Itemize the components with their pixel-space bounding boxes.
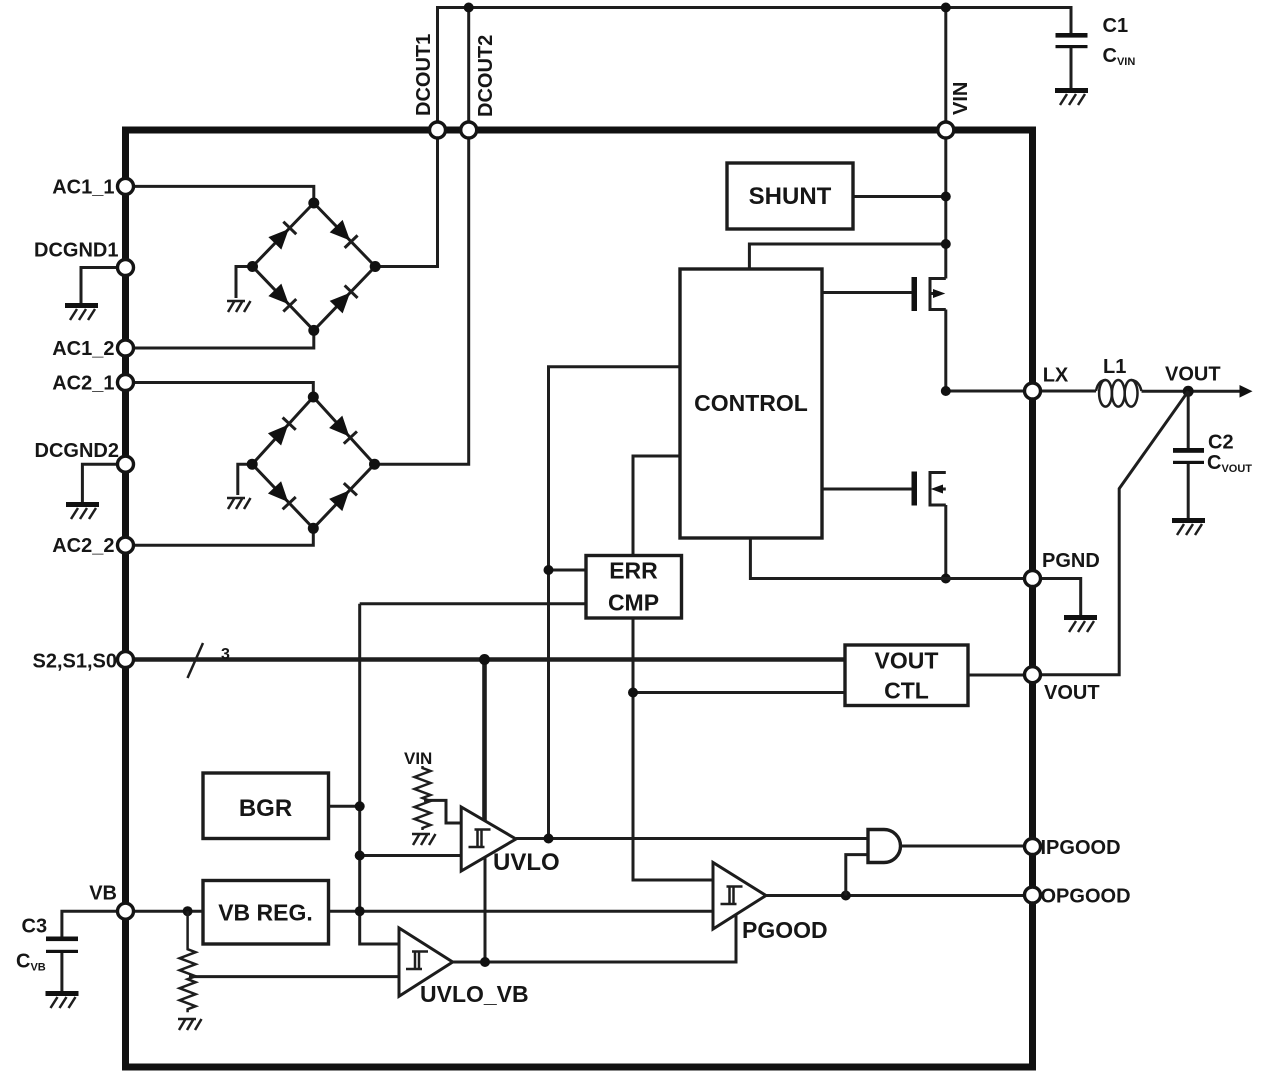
svg-text:VB: VB	[89, 883, 117, 905]
svg-text:C1: C1	[1103, 15, 1129, 37]
svg-text:AC1_1: AC1_1	[52, 177, 114, 199]
svg-text:AC2_2: AC2_2	[52, 535, 114, 557]
svg-text:DCOUT2: DCOUT2	[475, 35, 497, 117]
svg-text:DCGND1: DCGND1	[34, 240, 118, 262]
svg-text:PGOOD: PGOOD	[742, 917, 828, 943]
svg-text:ERR: ERR	[609, 558, 658, 584]
svg-text:PGND: PGND	[1042, 550, 1100, 572]
svg-text:BGR: BGR	[239, 795, 292, 822]
svg-text:C2: C2	[1208, 432, 1234, 454]
svg-text:DCOUT1: DCOUT1	[413, 34, 435, 116]
svg-text:S2,S1,S0: S2,S1,S0	[32, 651, 117, 673]
svg-text:VOUT: VOUT	[1165, 364, 1221, 386]
svg-text:VOUT: VOUT	[875, 648, 939, 674]
svg-text:CONTROL: CONTROL	[694, 390, 808, 416]
svg-text:3: 3	[221, 646, 230, 663]
svg-text:AC1_2: AC1_2	[52, 338, 114, 360]
svg-text:VOUT: VOUT	[1044, 682, 1100, 704]
svg-text:CTL: CTL	[884, 678, 929, 704]
svg-text:VIN: VIN	[950, 82, 972, 115]
svg-text:UVLO_VB: UVLO_VB	[420, 981, 529, 1007]
svg-text:CMP: CMP	[608, 590, 659, 616]
svg-text:VB REG.: VB REG.	[218, 900, 313, 926]
svg-text:UVLO: UVLO	[493, 849, 560, 876]
svg-text:VIN: VIN	[404, 749, 432, 768]
svg-text:OPGOOD: OPGOOD	[1041, 886, 1131, 908]
svg-text:DCGND2: DCGND2	[35, 440, 119, 462]
svg-text:LX: LX	[1043, 365, 1069, 387]
svg-text:AC2_1: AC2_1	[52, 373, 114, 395]
svg-text:L1: L1	[1103, 356, 1126, 378]
svg-text:IPGOOD: IPGOOD	[1041, 837, 1121, 859]
svg-text:SHUNT: SHUNT	[749, 183, 832, 210]
svg-text:C3: C3	[22, 916, 48, 938]
